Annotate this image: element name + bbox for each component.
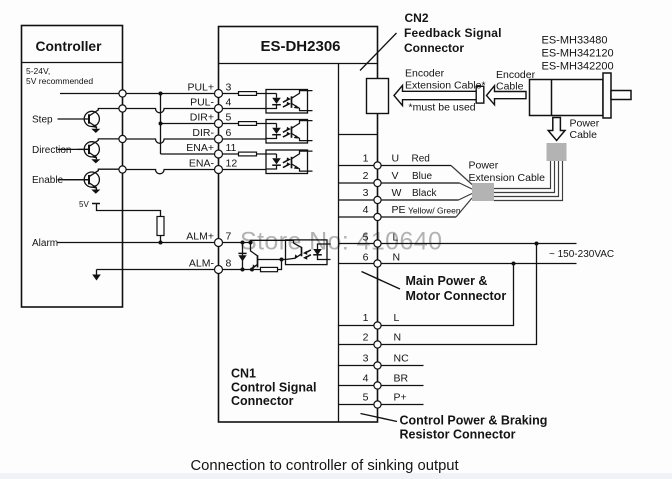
svg-text:Cable: Cable [570, 129, 598, 141]
svg-text:Controller: Controller [36, 39, 103, 54]
svg-text:3: 3 [363, 187, 369, 199]
svg-text:4: 4 [226, 97, 232, 109]
svg-text:Extension Cable: Extension Cable [469, 172, 546, 184]
svg-text:Feedback Signal: Feedback Signal [404, 26, 502, 40]
svg-text:2: 2 [363, 332, 369, 344]
svg-text:3: 3 [226, 82, 232, 94]
svg-text:CN2: CN2 [405, 11, 429, 25]
svg-text:ALM-: ALM- [189, 258, 215, 270]
svg-text:5-24V,: 5-24V, [26, 66, 50, 76]
svg-text:PUL-: PUL- [190, 97, 214, 109]
svg-text:PUL+: PUL+ [187, 82, 214, 94]
svg-text:Resistor Connector: Resistor Connector [400, 428, 516, 442]
svg-text:4: 4 [363, 204, 369, 216]
svg-text:U: U [392, 153, 400, 165]
svg-text:Yellow/ Green: Yellow/ Green [408, 206, 461, 216]
svg-text:BR: BR [394, 373, 409, 385]
svg-text:12: 12 [226, 158, 238, 170]
svg-text:Enable: Enable [32, 175, 64, 186]
svg-text:Store No: 410640: Store No: 410640 [240, 228, 442, 256]
svg-text:CN1: CN1 [231, 367, 256, 381]
svg-text:Main Power &: Main Power & [406, 274, 488, 288]
svg-text:5: 5 [226, 112, 232, 124]
svg-text:W: W [392, 187, 402, 199]
svg-text:Encoder: Encoder [496, 69, 536, 81]
svg-text:Power: Power [469, 160, 499, 172]
svg-text:5V recommended: 5V recommended [26, 76, 93, 86]
svg-text:Connection to controller of si: Connection to controller of sinking outp… [191, 458, 459, 474]
svg-text:P+: P+ [394, 392, 407, 404]
svg-text:5V: 5V [79, 200, 89, 209]
svg-text:*must be used: *must be used [409, 102, 476, 114]
svg-text:2: 2 [363, 170, 369, 182]
svg-text:ES-DH2306: ES-DH2306 [260, 38, 340, 55]
svg-text:L: L [393, 232, 399, 244]
svg-text:Control Power & Braking: Control Power & Braking [400, 414, 548, 428]
svg-text:Black: Black [412, 188, 437, 199]
svg-text:7: 7 [226, 231, 232, 243]
svg-text:ES-MH33480: ES-MH33480 [542, 35, 608, 47]
svg-text:PE: PE [392, 204, 406, 216]
svg-text:5: 5 [363, 232, 369, 244]
svg-text:6: 6 [363, 252, 369, 264]
svg-text:11: 11 [226, 142, 237, 154]
svg-text:DIR-: DIR- [192, 127, 214, 139]
svg-text:8: 8 [226, 258, 232, 270]
svg-text:Control Signal: Control Signal [231, 381, 316, 395]
svg-text:ES-MH342200: ES-MH342200 [542, 61, 614, 73]
svg-text:Direction: Direction [32, 145, 71, 156]
svg-text:Encoder: Encoder [405, 68, 445, 80]
svg-text:ES-MH342120: ES-MH342120 [542, 48, 614, 60]
svg-text:NC: NC [394, 353, 410, 365]
svg-text:Power: Power [570, 118, 600, 130]
svg-text:Extension Cable*: Extension Cable* [405, 80, 486, 92]
svg-text:ENA+: ENA+ [186, 142, 214, 154]
svg-text:Blue: Blue [412, 171, 432, 182]
svg-text:5: 5 [363, 392, 369, 404]
svg-text:Cable: Cable [496, 81, 524, 93]
svg-text:Motor Connector: Motor Connector [406, 289, 507, 303]
svg-text:V: V [392, 170, 399, 182]
svg-text:ENA-: ENA- [189, 158, 215, 170]
svg-text:N: N [393, 252, 401, 264]
svg-text:N: N [394, 332, 402, 344]
svg-text:L: L [394, 312, 400, 324]
svg-text:Step: Step [32, 115, 53, 126]
svg-text:Alarm: Alarm [32, 238, 58, 249]
svg-text:Connector: Connector [231, 394, 294, 408]
svg-text:4: 4 [363, 373, 369, 385]
svg-text:1: 1 [363, 153, 369, 165]
svg-text:~ 150-230VAC: ~ 150-230VAC [549, 249, 614, 260]
svg-text:1: 1 [363, 312, 369, 324]
svg-text:DIR+: DIR+ [190, 112, 214, 124]
svg-text:3: 3 [363, 353, 369, 365]
svg-text:Red: Red [412, 154, 430, 165]
svg-text:ALM+: ALM+ [186, 231, 214, 243]
svg-text:6: 6 [226, 127, 232, 139]
svg-text:Connector: Connector [404, 41, 464, 55]
